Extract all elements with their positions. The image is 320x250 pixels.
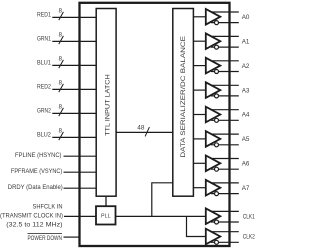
svg-text:FPLINE (HSYNC): FPLINE (HSYNC) [15,152,62,159]
buffer A0 driver [193,9,249,25]
wire BLU2 bus [37,129,96,140]
wire CLK2 branch [187,216,206,236]
wire PLL clock out [116,215,206,217]
svg-text:CLK1: CLK1 [243,213,256,220]
wire BLU1 bus [37,57,96,68]
svg-text:CLK2: CLK2 [243,234,256,241]
svg-text:(32.5 to 112 MHz): (32.5 to 112 MHz) [6,222,62,229]
wire SHFCLK IN [0,204,96,229]
wire latch-PLL connector [105,196,107,206]
svg-text:SHFCLK IN: SHFCLK IN [33,204,63,211]
svg-text:A7: A7 [242,185,250,192]
buffer CLK2 driver [206,229,255,245]
wire GRN1 bus [37,33,96,44]
svg-text:GRN1: GRN1 [37,36,51,43]
svg-text:A5: A5 [242,136,250,143]
buffer CLK1 driver [206,208,255,224]
buffer A2 driver [193,58,249,74]
buffer A5 driver [193,131,249,147]
svg-text:FPFRAME (VSYNC): FPFRAME (VSYNC) [11,168,62,175]
svg-text:POWER DOWN: POWER DOWN [28,235,63,242]
svg-text:BLU2: BLU2 [37,132,51,139]
svg-text:A0: A0 [242,14,250,21]
wire FPLINE (HSYNC) [15,152,96,159]
block DATA SERIALIZER/DC BALANCE [173,9,194,197]
wire FPFRAME (VSYNC) [11,168,96,175]
wire 48-bit bus [116,126,173,137]
svg-text:TTL INPUT LATCH: TTL INPUT LATCH [105,74,112,136]
wire POWER DOWN (active low) [28,234,80,243]
buffer A4 driver [193,107,249,123]
block TTL INPUT LATCH [96,9,116,197]
svg-text:DRDY (Data Enable): DRDY (Data Enable) [8,184,63,191]
wire RED1 bus [37,9,96,20]
buffer A6 driver [193,156,249,172]
svg-text:A1: A1 [242,38,250,45]
buffer A3 driver [193,82,249,98]
svg-text:BLU1: BLU1 [37,60,51,67]
svg-text:RED2: RED2 [37,84,51,91]
svg-text:A6: A6 [242,161,250,168]
svg-text:A4: A4 [242,112,250,119]
svg-text:A3: A3 [242,87,250,94]
svg-text:PLL: PLL [101,214,111,220]
wire GRN2 bus [37,105,96,116]
buffer A7 driver [193,180,249,196]
wire RED2 bus [37,81,96,92]
svg-text:(TRANSMIT CLOCK IN): (TRANSMIT CLOCK IN) [0,212,63,219]
wire DRDY (Data Enable) [8,184,96,191]
svg-text:DATA SERIALIZER/DC BALANCE: DATA SERIALIZER/DC BALANCE [180,36,187,158]
svg-text:GRN2: GRN2 [37,108,51,115]
power-down boundary net [80,3,230,246]
svg-text:A2: A2 [242,63,250,70]
svg-text:48: 48 [137,126,145,132]
block PLL [96,206,116,224]
svg-text:RED1: RED1 [37,12,51,19]
buffer A1 driver [193,33,249,49]
wire serializer clock branch [152,183,173,217]
